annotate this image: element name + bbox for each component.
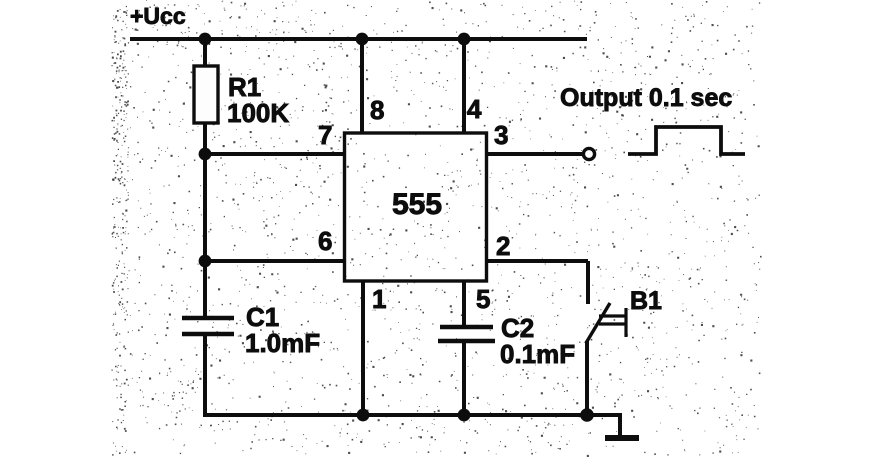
switch B1 actuator bars <box>599 308 627 337</box>
junction: ground rail / pin1 <box>357 409 370 422</box>
junction: pin6 / left branch <box>199 255 212 268</box>
power rail +Ucc (top wire) <box>130 37 587 41</box>
speckle noise layers (decorative) <box>112 0 762 457</box>
output terminal circle (pin 3 node) <box>583 148 594 159</box>
wire pin4 (Vcc to pin 4) <box>462 39 466 133</box>
wire R1 top lead <box>203 39 207 66</box>
junction: rail / pin8 <box>356 33 369 46</box>
resistor R1 body <box>194 66 218 123</box>
svg-text:555: 555 <box>392 188 442 221</box>
svg-text:2: 2 <box>496 231 510 261</box>
wire switch B1 to ground rail <box>585 341 589 415</box>
wire pin5 (to C2) <box>462 282 466 326</box>
junction: rail / R1 <box>199 33 212 46</box>
svg-text:7: 7 <box>318 120 332 150</box>
IC label 555 <box>392 188 442 221</box>
svg-text:3: 3 <box>494 120 508 150</box>
switch B1 lever <box>586 303 610 343</box>
svg-text:4: 4 <box>467 94 482 124</box>
junction: pin7 / R1 / C1 node <box>199 148 212 161</box>
wire pin3 (output) <box>487 152 583 156</box>
wire ground stub (rail to ground symbol) <box>618 415 622 437</box>
svg-text:Output 0.1 sec: Output 0.1 sec <box>560 84 732 112</box>
wire C2 bottom lead <box>462 341 466 415</box>
wire pin7 (node A horizontal) <box>205 152 345 156</box>
wire pin8 (Vcc to pin 8) <box>360 39 364 133</box>
wire pin1 (to ground rail) <box>361 282 365 415</box>
capacitor C2 plates <box>438 327 495 341</box>
wire pin2 down to switch B1 <box>586 261 590 304</box>
svg-text:6: 6 <box>318 226 332 256</box>
wire pin6 <box>205 259 345 263</box>
svg-text:1: 1 <box>372 284 386 314</box>
svg-text:100K: 100K <box>227 98 289 128</box>
junction: ground rail / switch B1 <box>580 408 594 422</box>
svg-text:8: 8 <box>370 95 384 125</box>
ground symbol bar <box>605 435 639 441</box>
wire C1 bottom lead <box>203 335 207 416</box>
wire left branch vertical (R1/C1 node) <box>203 154 207 317</box>
svg-text:+Ucc: +Ucc <box>130 3 186 29</box>
wire pin2 horizontal <box>487 259 588 263</box>
capacitor C1 plates <box>182 318 234 334</box>
ground rail (bottom wire) <box>203 413 622 417</box>
junction: rail / pin4 <box>458 33 471 46</box>
wire R1 bottom lead <box>203 123 207 156</box>
junction: ground rail / C2 <box>458 409 471 422</box>
svg-text:B1: B1 <box>630 287 662 315</box>
svg-text:0.1mF: 0.1mF <box>500 339 575 369</box>
svg-text:5: 5 <box>476 284 490 314</box>
output pulse waveform <box>628 127 745 154</box>
svg-text:1.0mF: 1.0mF <box>245 328 320 358</box>
IC U1 555 body <box>345 133 487 281</box>
